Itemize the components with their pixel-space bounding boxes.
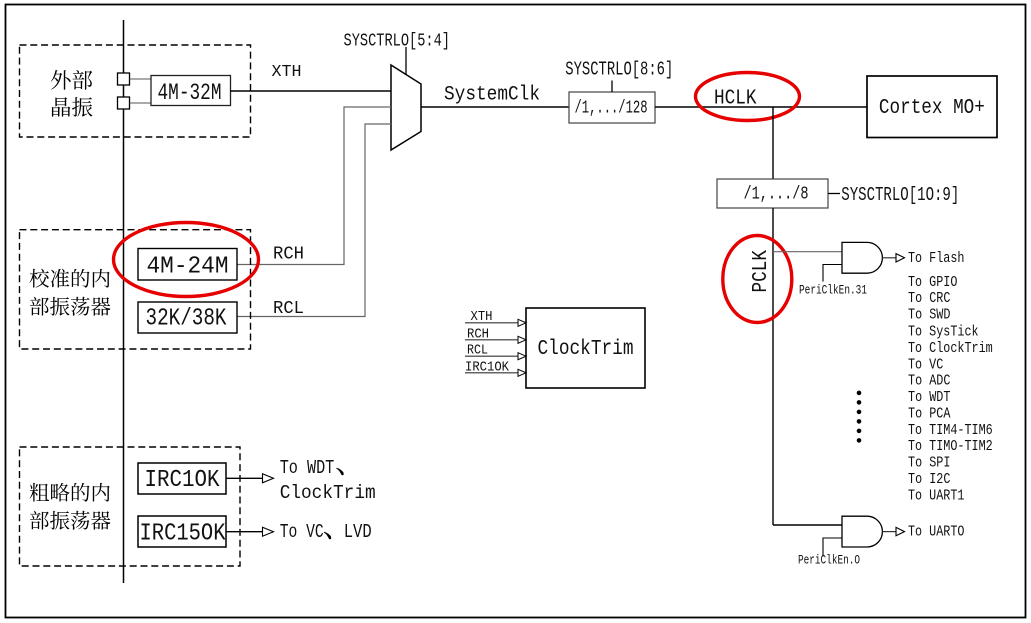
svg-text:PCLK: PCLK xyxy=(750,250,773,293)
svg-text:To ADC: To ADC xyxy=(908,374,951,390)
crystal pad square top xyxy=(118,73,130,85)
svg-text:To UART1: To UART1 xyxy=(908,488,965,504)
crystal pad square bottom xyxy=(118,97,130,109)
label 晶振 xyxy=(52,97,93,117)
dashed box: external crystal group xyxy=(20,45,251,137)
wire PeriClkEn.31 xyxy=(823,265,842,282)
vertical ellipsis dots xyxy=(857,391,862,443)
wire RCL riser xyxy=(237,124,391,317)
arrowhead gate2 xyxy=(896,527,905,535)
block 4M-24M xyxy=(138,249,237,281)
label 外部 xyxy=(51,70,93,90)
svg-text:To TIM4-TIM6: To TIM4-TIM6 xyxy=(908,423,993,439)
wire HCLK branch down xyxy=(772,107,774,179)
svg-text:To TIMO-TIM2: To TIMO-TIM2 xyxy=(908,439,993,455)
svg-text:SystemClk: SystemClk xyxy=(444,84,540,107)
block 4M-32M xyxy=(151,76,231,107)
svg-text:RCH: RCH xyxy=(273,245,304,265)
svg-text:SYSCTRLO[5:4]: SYSCTRLO[5:4] xyxy=(344,31,451,52)
wire HCLK xyxy=(655,106,867,108)
wire XTH into ClockTrim xyxy=(465,322,518,324)
mux (clock selector) xyxy=(391,65,421,150)
wire PCLK vertical xyxy=(772,208,774,525)
svg-text:To SPI: To SPI xyxy=(908,456,950,472)
svg-text:IRC15OK: IRC15OK xyxy=(140,521,226,548)
wire PCLK to gate2 xyxy=(773,524,842,526)
label To WDT、 xyxy=(280,457,344,479)
block ClockTrim xyxy=(526,308,645,388)
wire RCH into ClockTrim xyxy=(465,339,518,341)
wire pad1 to 4M-32M xyxy=(130,78,152,80)
red ellipse around PCLK xyxy=(723,236,792,323)
arrowhead gate1 xyxy=(896,254,905,262)
svg-text:To ClockTrim: To ClockTrim xyxy=(908,341,993,357)
svg-text:To GPIO: To GPIO xyxy=(908,275,957,291)
cjk comma 1 xyxy=(336,468,344,475)
tick to SYSCTRL0[10:9] xyxy=(828,193,840,195)
wire: long vertical line xyxy=(123,20,125,583)
block Cortex M0+ xyxy=(867,76,997,138)
svg-text:RCL: RCL xyxy=(273,299,304,319)
wire IRC10K into ClockTrim xyxy=(465,372,518,374)
wire gate1 output xyxy=(882,257,896,259)
wire pad2 to 4M-32M xyxy=(130,102,152,104)
svg-text:32K/38K: 32K/38K xyxy=(146,306,227,333)
arrowhead IRC150K xyxy=(263,527,274,536)
svg-text:To WDT: To WDT xyxy=(280,457,335,479)
svg-text:/1,.../8: /1,.../8 xyxy=(744,185,809,205)
wire SystemClk xyxy=(421,106,569,108)
svg-text:/1,.../128: /1,.../128 xyxy=(575,99,648,119)
block IRC150K xyxy=(138,516,226,548)
svg-text:LVD: LVD xyxy=(344,521,372,543)
svg-text:To I2C: To I2C xyxy=(908,472,951,488)
svg-text:PeriClkEn.31: PeriClkEn.31 xyxy=(799,284,867,298)
svg-text:4M-32M: 4M-32M xyxy=(158,80,222,106)
svg-text:SYSCTRLO[1O:9]: SYSCTRLO[1O:9] xyxy=(841,184,959,206)
svg-text:IRC1OK: IRC1OK xyxy=(145,467,221,494)
svg-text:To SWD: To SWD xyxy=(908,308,950,324)
arrowhead XTH xyxy=(518,319,526,326)
svg-text:To PCA: To PCA xyxy=(908,406,951,422)
red ellipse around HCLK xyxy=(696,73,800,121)
wire RCH riser xyxy=(237,107,391,265)
AND gate bottom (UART0) xyxy=(842,516,882,547)
wire IRC10K out xyxy=(226,477,262,479)
block divider /1,.../128 xyxy=(569,92,655,123)
svg-text:To Flash: To Flash xyxy=(908,251,965,267)
svg-text:XTH: XTH xyxy=(272,63,302,82)
label 校准的内 xyxy=(29,269,109,288)
svg-text:HCLK: HCLK xyxy=(714,87,757,111)
red ellipse around 4M-24M xyxy=(114,223,259,297)
mux select tick xyxy=(405,47,407,75)
arrowhead RCL xyxy=(518,353,526,360)
svg-text:To SysTick: To SysTick xyxy=(908,325,979,341)
svg-text:PeriClkEn.O: PeriClkEn.O xyxy=(798,554,860,568)
cjk comma 2 xyxy=(324,532,332,539)
wire IRC150K out xyxy=(226,531,262,533)
svg-text:To WDT: To WDT xyxy=(908,390,951,406)
svg-text:ClockTrim: ClockTrim xyxy=(538,338,634,361)
block IRC10K xyxy=(138,463,226,494)
label 部振荡器 (box2) xyxy=(30,297,111,316)
svg-text:ClockTrim: ClockTrim xyxy=(280,482,376,504)
svg-text:To CRC: To CRC xyxy=(908,291,951,307)
arrowhead RCH xyxy=(518,336,526,343)
label 粗略的内 xyxy=(30,483,110,502)
arrowhead IRC10K xyxy=(518,369,526,376)
dashed box: coarse internal oscillator xyxy=(20,447,241,566)
arrowhead IRC10K xyxy=(263,474,274,483)
wire gate2 output xyxy=(882,531,896,533)
wire PCLK to gate1 xyxy=(773,251,842,253)
svg-text:Cortex MO+: Cortex MO+ xyxy=(879,96,985,120)
wire RCL into ClockTrim xyxy=(465,355,518,357)
block 32K/38K xyxy=(138,302,237,333)
AND gate top (Flash) xyxy=(842,242,882,273)
block divider /1,.../8 xyxy=(717,179,828,208)
wire XTH xyxy=(230,90,391,92)
wire PeriClkEn.0 xyxy=(823,538,842,557)
svg-text:SYSCTRLO[8:6]: SYSCTRLO[8:6] xyxy=(565,59,673,81)
label 部振荡器 (box3) xyxy=(30,511,111,530)
dashed box: calibrated internal oscillator xyxy=(20,230,251,349)
svg-text:4M-24M: 4M-24M xyxy=(147,254,229,281)
tick to SYSCTRL0[8:6] xyxy=(611,81,613,93)
svg-text:To VC: To VC xyxy=(280,521,324,543)
svg-text:To VC: To VC xyxy=(908,357,944,373)
svg-text:To UARTO: To UARTO xyxy=(908,524,965,540)
label To VC、LVD xyxy=(280,521,372,543)
